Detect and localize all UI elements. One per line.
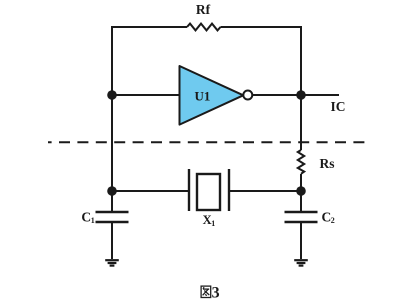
- ground left: [105, 259, 119, 261]
- node bottom-left (junction dot): [107, 186, 117, 196]
- svg-text:IC: IC: [330, 99, 345, 114]
- crystal X1 body: [197, 174, 220, 210]
- wire top-right segment: [221, 27, 302, 150]
- svg-text:U1: U1: [195, 88, 211, 103]
- dashed partition line: [48, 141, 364, 143]
- node left (junction dot): [107, 90, 117, 100]
- resistor Rs: [298, 150, 304, 174]
- wire inverter output: [253, 94, 302, 96]
- inverter bubble: [243, 91, 252, 100]
- svg-text:C: C: [81, 209, 91, 224]
- op-amp U1 (inverter): [180, 66, 244, 125]
- svg-text:3: 3: [212, 285, 220, 302]
- svg-text:2: 2: [331, 216, 335, 225]
- wire top-left segment: [112, 27, 187, 191]
- svg-text:Rs: Rs: [320, 156, 335, 171]
- crystal X1 left plate: [188, 169, 190, 211]
- wire bottom left: [112, 190, 189, 192]
- capacitor C1: [111, 191, 113, 212]
- resistor Rf: [187, 24, 221, 31]
- crystal X1 right plate: [228, 169, 230, 211]
- caption glyph 图 (drawn): [201, 286, 211, 297]
- capacitor C2: [300, 191, 302, 212]
- node bottom-right (junction dot): [296, 186, 306, 196]
- wire IC stub: [301, 94, 339, 96]
- svg-text:1: 1: [211, 219, 215, 228]
- svg-text:Rf: Rf: [196, 2, 211, 17]
- wire bottom right: [229, 190, 301, 192]
- ground right: [294, 259, 308, 261]
- node right (junction dot): [296, 90, 306, 100]
- wire Rs to bottom node: [300, 174, 302, 191]
- svg-text:1: 1: [91, 216, 95, 225]
- wire inverter input: [112, 94, 179, 96]
